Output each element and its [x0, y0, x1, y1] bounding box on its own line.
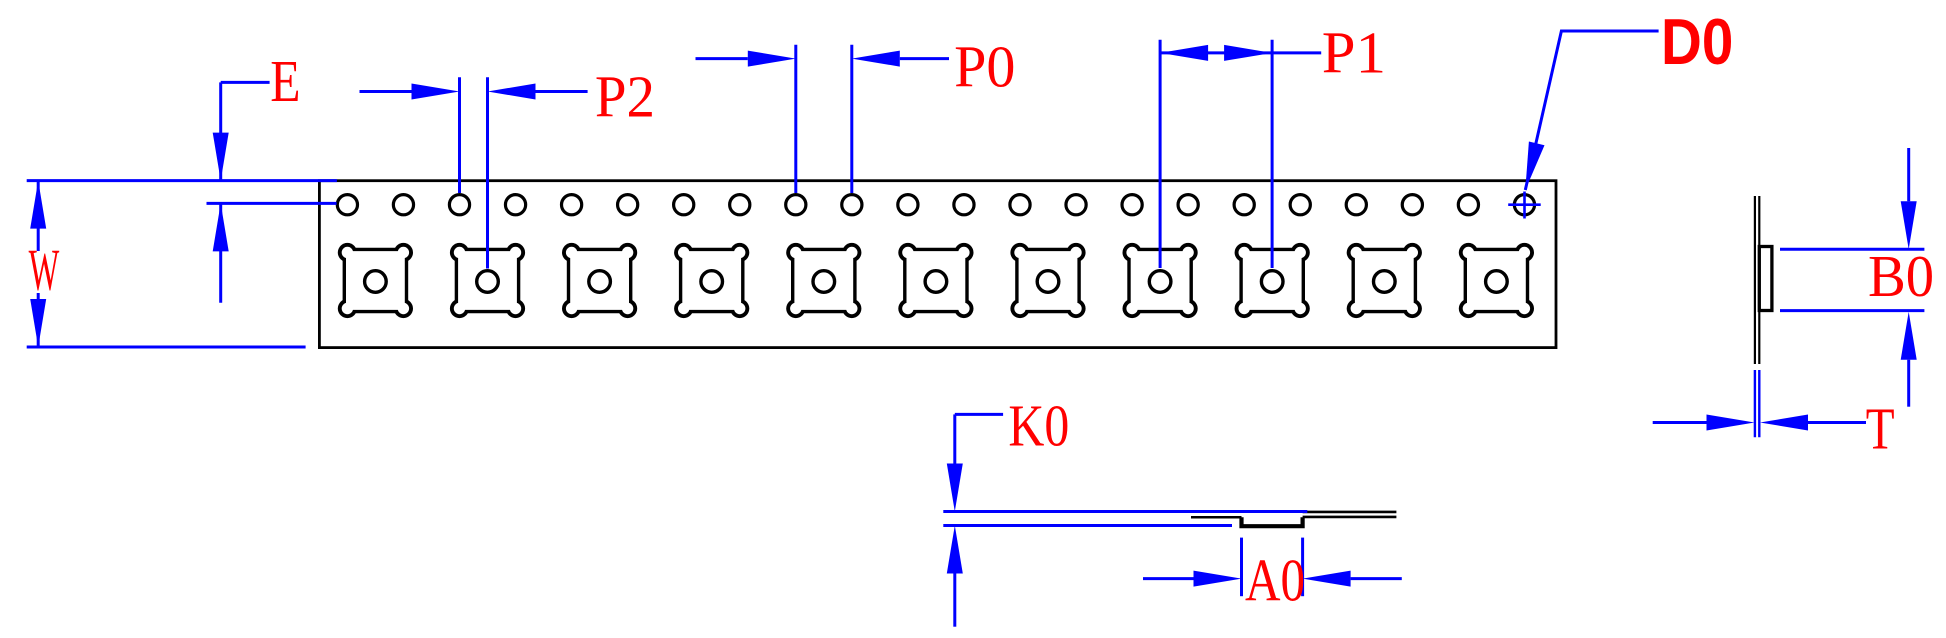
svg-text:W: W: [29, 239, 60, 303]
svg-text:E: E: [270, 48, 300, 114]
svg-text:T: T: [1866, 396, 1895, 462]
svg-text:D0: D0: [1661, 5, 1733, 78]
svg-text:P1: P1: [1322, 20, 1386, 85]
svg-text:A0: A0: [1245, 547, 1305, 614]
svg-text:P2: P2: [595, 64, 655, 130]
svg-text:K0: K0: [1008, 392, 1069, 458]
svg-text:P0: P0: [954, 34, 1015, 99]
svg-text:B0: B0: [1868, 243, 1934, 309]
